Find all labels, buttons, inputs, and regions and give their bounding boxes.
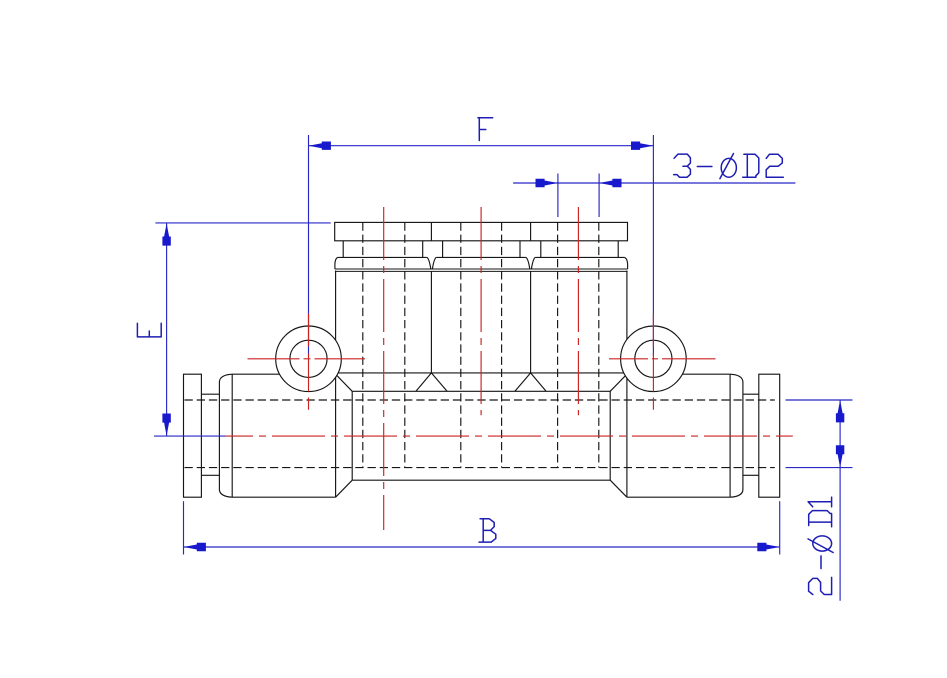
central tube bottom edge — [352, 479, 610, 481]
right cap collet division — [729, 374, 731, 497]
F extension line right — [652, 135, 654, 356]
TEXT LABELS (CAD stroke glyphs) — [137, 118, 833, 595]
E extension line bottom — [154, 435, 225, 437]
port2 bore left — [460, 222, 462, 467]
port2 bore right — [501, 222, 503, 467]
E extension line top — [155, 222, 330, 224]
left hole vertical centerline — [308, 314, 310, 410]
E dimension line — [166, 223, 168, 436]
left cap top edge — [232, 373, 335, 375]
shoulder line — [336, 372, 627, 374]
neck cap1 left — [342, 241, 344, 258]
right neck top — [743, 393, 759, 395]
skirt bottom line — [335, 268, 628, 270]
HIDDEN DASHED LINES — [185, 222, 775, 467]
mounting hole right inner — [635, 340, 672, 377]
F arrow left — [309, 142, 331, 150]
top plate outline — [335, 222, 628, 240]
BLACK BODY GROUP — [184, 222, 780, 497]
label 3-ØD2 — [674, 154, 784, 179]
right cap bottom edge — [627, 496, 730, 498]
label 2-ØD1 (rotated) — [808, 497, 833, 594]
right flange rect — [759, 374, 780, 497]
B dimension line — [184, 546, 780, 548]
left neck top — [201, 393, 219, 395]
RED CENTERLINES — [224, 207, 793, 530]
BLUE EXTENSION LINES UNDER RED — [309, 135, 654, 356]
left cap outer face with rounded corners — [219, 374, 232, 497]
V notch 2 left — [526, 257, 530, 269]
F dimension line — [309, 145, 654, 147]
left cap collet division — [231, 374, 233, 497]
skirt top cap2 — [436, 256, 526, 258]
E arrow top — [162, 223, 170, 245]
neck cap3 right — [617, 241, 619, 258]
skirt top cap1 — [338, 256, 427, 258]
ØD1 arrow bottom — [836, 445, 844, 467]
B extension line right — [779, 501, 781, 554]
skirt left flare — [335, 257, 338, 269]
left flange rect — [184, 374, 202, 497]
tower divider 1 — [430, 271, 432, 373]
left hole horizontal centerline — [248, 358, 366, 360]
V notch 1 right — [432, 257, 436, 269]
main bore hidden line top — [185, 399, 775, 401]
neck cap2 left — [442, 241, 444, 258]
ØD2 dimension line — [513, 182, 795, 184]
port1 bore right — [404, 222, 406, 467]
left cap bottom edge — [232, 496, 335, 498]
mounting hole left inner — [290, 340, 327, 377]
ØD1 extension line bottom — [786, 467, 853, 469]
right hole horizontal centerline — [609, 358, 716, 360]
central tube right shoulder — [609, 391, 611, 480]
body collar line — [335, 270, 628, 272]
right cap outer face with rounded corners — [730, 374, 743, 497]
main bore hidden line bottom — [185, 467, 775, 469]
plate divider 1 — [430, 222, 432, 240]
E arrow bottom — [162, 414, 170, 436]
main axis centerline — [224, 435, 793, 437]
skirt top cap3 — [535, 256, 624, 258]
plate divider 2 — [530, 222, 532, 240]
right top taper — [610, 374, 627, 391]
label E (rotated) — [137, 323, 161, 337]
neck cap3 left — [540, 241, 542, 258]
port2 centerline — [480, 207, 482, 415]
port3 bore left — [557, 222, 559, 467]
skirt right flare — [625, 257, 628, 269]
mounting hole left (white fill clips lines behind) — [276, 326, 342, 392]
port3 centerline — [577, 207, 579, 415]
label F — [478, 118, 493, 141]
port1 bore left — [362, 222, 364, 467]
port1 centerline — [383, 207, 385, 530]
B arrow left — [184, 543, 206, 551]
F arrow right — [631, 142, 653, 150]
F extension line left — [308, 135, 310, 356]
right hole vertical centerline — [652, 314, 654, 410]
central tube left shoulder — [351, 391, 353, 480]
V notch 2 right — [531, 257, 535, 269]
B arrow right — [757, 543, 779, 551]
mounting hole right — [621, 326, 687, 392]
label B — [479, 519, 496, 542]
ØD2 extension line right — [598, 174, 600, 218]
ØD2 arrow left — [536, 179, 558, 187]
web triangle 2 — [515, 373, 546, 391]
V notch 1 left — [427, 257, 431, 269]
left neck bottom — [201, 474, 219, 476]
left cap rear face vertical — [335, 271, 337, 498]
right bottom taper — [610, 480, 627, 497]
ØD2 extension line left — [557, 174, 559, 218]
right cap top edge — [627, 373, 730, 375]
neck cap2 right — [519, 241, 521, 258]
central tube top edge — [352, 390, 610, 392]
ØD1 extension line top — [786, 399, 853, 401]
B extension line left — [183, 501, 185, 554]
tower divider 2 — [530, 271, 532, 373]
ØD1 dimension line — [839, 400, 841, 601]
ØD1 arrow top — [836, 400, 844, 422]
left top taper — [336, 374, 353, 391]
ARROWHEADS — [162, 142, 844, 552]
ØD2 arrow right — [599, 179, 621, 187]
port3 bore right — [598, 222, 600, 467]
left bottom taper — [336, 480, 353, 497]
right cap rear face vertical — [626, 271, 628, 498]
web triangle 1 — [416, 373, 447, 391]
right neck bottom — [743, 474, 759, 476]
BLUE DIMENSIONS — [154, 146, 853, 601]
neck cap1 right — [422, 241, 424, 258]
